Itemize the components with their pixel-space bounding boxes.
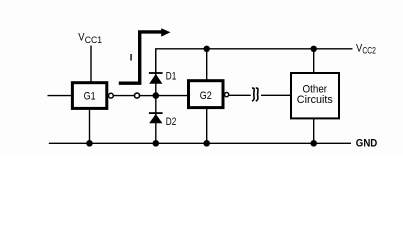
wire G1 bottom to GND <box>89 109 91 144</box>
output bubble of G1 <box>109 93 114 98</box>
gate G2 <box>189 81 224 108</box>
svg-text:Circuits: Circuits <box>297 94 333 106</box>
junction on VCC2 rail above Other Circuits <box>311 46 317 52</box>
current arrow I <box>119 28 171 83</box>
diode D1 <box>149 73 163 84</box>
wire Other Circuits bottom to GND <box>313 118 315 143</box>
break squiggle <box>252 88 258 101</box>
wire diode branch vertical <box>155 49 157 143</box>
rail GND <box>49 142 351 144</box>
wire G1 input <box>48 95 72 97</box>
node VCC2 label <box>356 43 376 56</box>
wire break to Other Circuits <box>261 94 291 96</box>
svg-text:D1: D1 <box>166 70 177 82</box>
svg-text:GND: GND <box>356 138 378 150</box>
svg-text:D2: D2 <box>166 116 177 128</box>
wire G2 bottom to GND <box>206 108 208 143</box>
svg-text:G1: G1 <box>84 90 96 102</box>
wire G2 output to break <box>229 94 251 96</box>
svg-text:CC2: CC2 <box>362 45 376 55</box>
junction on GND below D2 <box>153 140 160 147</box>
wire VCC1 to G1 top <box>90 46 92 82</box>
junction node A <box>153 92 160 99</box>
junction on GND below G2 <box>203 140 210 147</box>
wire VCC2 rail to G2 top <box>206 49 208 80</box>
gate G1 <box>72 83 106 109</box>
wire VCC2 rail to Other Circuits top <box>313 49 315 73</box>
svg-text:I: I <box>130 53 133 64</box>
svg-text:G2: G2 <box>200 90 212 102</box>
node VCC1 label <box>78 32 102 45</box>
junction on VCC2 rail above G2 <box>204 46 210 52</box>
output bubble of G2 <box>225 93 229 97</box>
wire open node to junction <box>140 95 156 97</box>
junction on GND below Other Circuits <box>310 140 317 147</box>
wire G1 bubble to open node <box>114 95 135 97</box>
wire junction to G2 input <box>156 95 187 97</box>
node open circle (package pin) <box>135 93 140 98</box>
rail VCC2 <box>156 49 353 73</box>
box Other Circuits <box>291 73 339 118</box>
junction on GND below G1 <box>86 140 93 147</box>
diode D2 <box>149 113 163 123</box>
svg-text:CC1: CC1 <box>85 35 102 45</box>
